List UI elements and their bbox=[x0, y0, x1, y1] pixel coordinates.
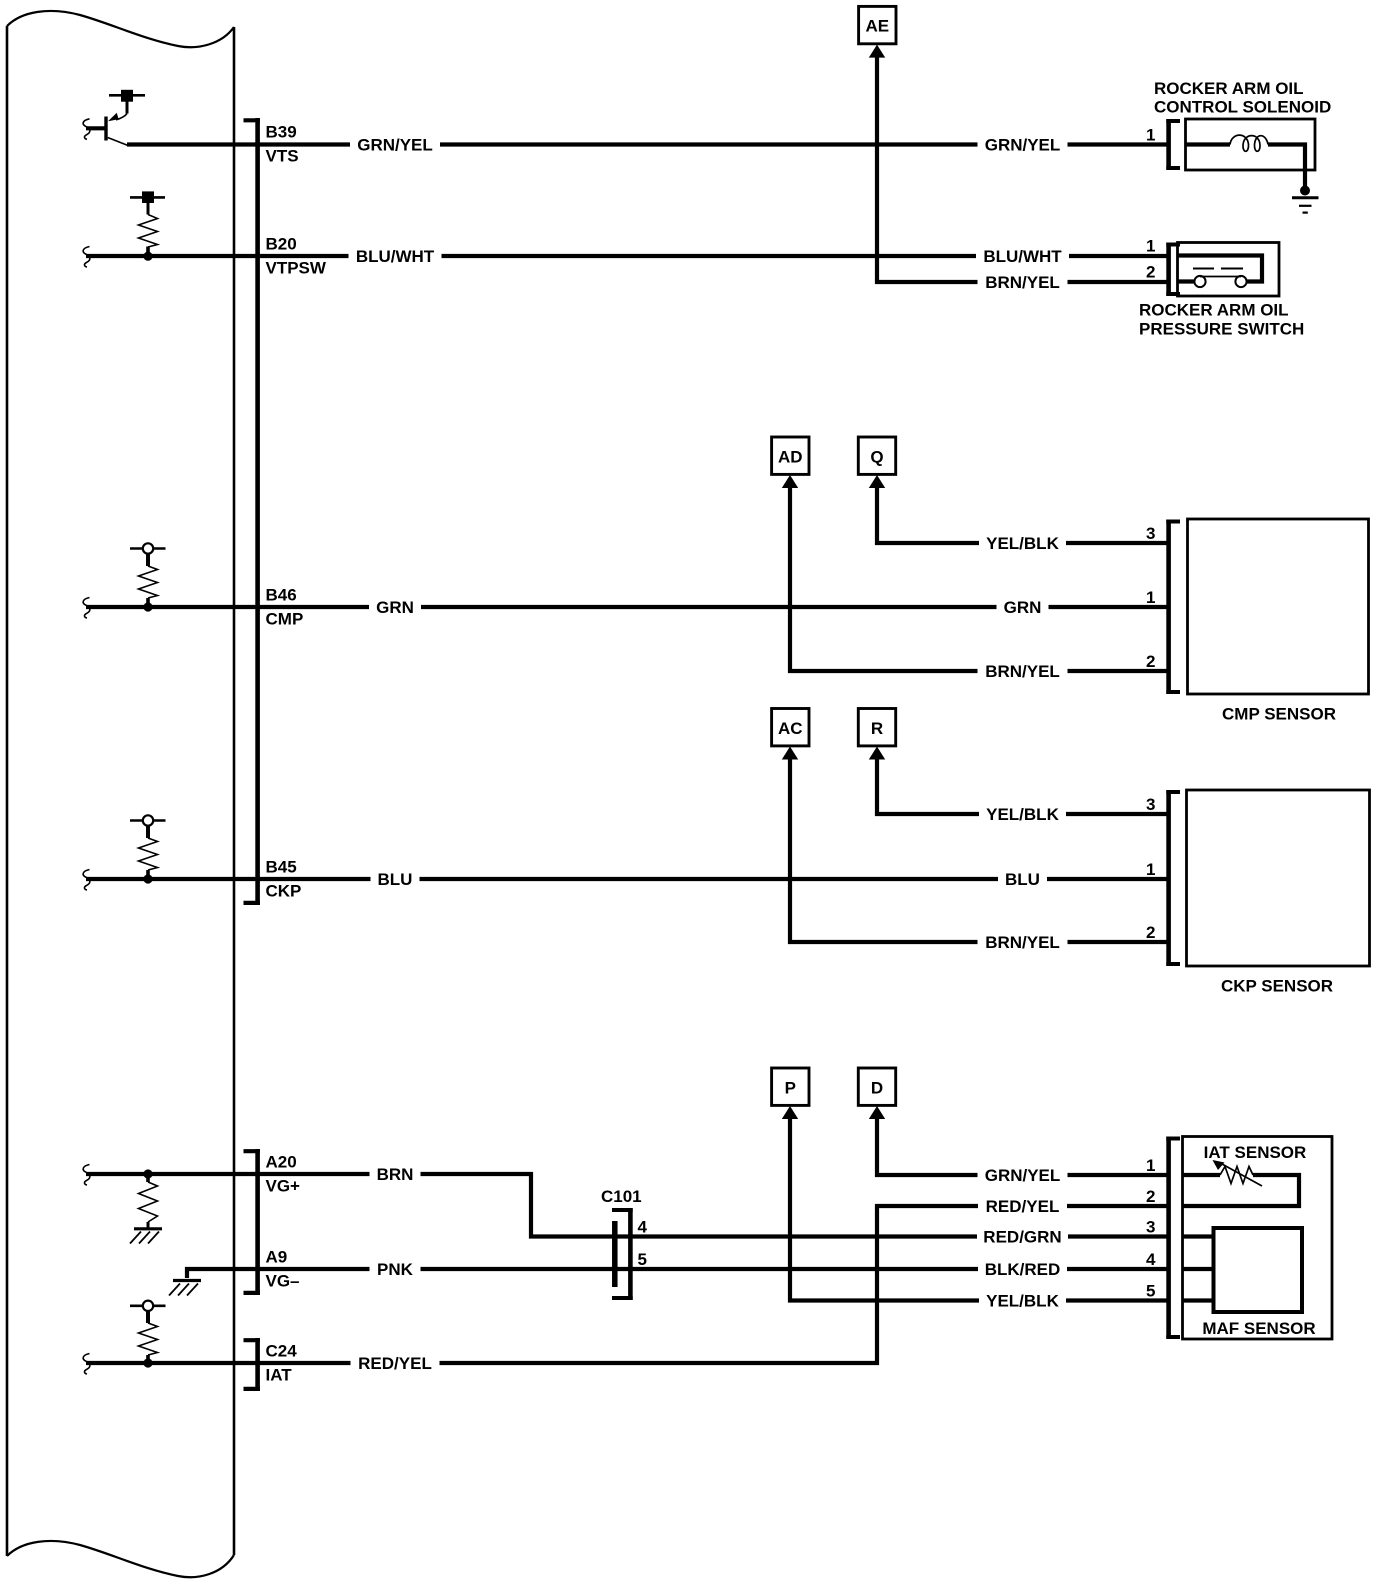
label pin B20 VTPSW bbox=[266, 235, 327, 278]
svg-text:VG+: VG+ bbox=[266, 1177, 301, 1196]
junction dot B20 bbox=[143, 252, 152, 261]
wire RED/YEL (C24 IAT up to MAF pin 2) bbox=[86, 1206, 1168, 1363]
wire BRN (A20 VG+ to C101 pin 4, then RED/GRN to MAF pin 3) bbox=[86, 1174, 1168, 1237]
svg-text:PNK: PNK bbox=[377, 1260, 414, 1279]
svg-text:Q: Q bbox=[870, 447, 883, 466]
svg-text:GRN/YEL: GRN/YEL bbox=[985, 136, 1061, 155]
junction dot B45 bbox=[143, 874, 152, 883]
label pin numbers (CMP pins 3,1,2) bbox=[1146, 524, 1155, 671]
connector D with arrow and GRN/YEL wire to IAT pin 1 bbox=[858, 1068, 1168, 1175]
resistor R4 (A20 pull-down inside ECM) bbox=[139, 1174, 158, 1228]
svg-text:3: 3 bbox=[1146, 1217, 1155, 1236]
connector C101 inline bbox=[601, 1187, 648, 1300]
svg-text:RED/YEL: RED/YEL bbox=[358, 1354, 432, 1373]
svg-text:CMP: CMP bbox=[266, 610, 304, 629]
svg-text:BLK/RED: BLK/RED bbox=[985, 1260, 1061, 1279]
svg-text:YEL/BLK: YEL/BLK bbox=[986, 805, 1059, 824]
svg-text:GRN/YEL: GRN/YEL bbox=[985, 1166, 1061, 1185]
connector bracket (CMP sensor) bbox=[1166, 520, 1180, 695]
label pin numbers (switch pins 1,2) bbox=[1146, 236, 1155, 281]
svg-text:IAT: IAT bbox=[266, 1366, 293, 1385]
connector bracket B (pins B39-B45) bbox=[244, 118, 260, 905]
svg-text:BRN: BRN bbox=[377, 1165, 414, 1184]
connector P with arrow and YEL/BLK wire to MAF pin 5 bbox=[772, 1068, 1168, 1301]
svg-text:B39: B39 bbox=[266, 123, 297, 142]
wire GRN (B46 CMP to sensor pin 1) bbox=[86, 605, 1168, 609]
junction dot A20 bbox=[143, 1169, 152, 1178]
svg-text:4: 4 bbox=[1146, 1250, 1156, 1269]
svg-text:1: 1 bbox=[1146, 236, 1155, 255]
svg-text:AC: AC bbox=[778, 719, 803, 738]
label gaps (white) under wire color names bbox=[349, 136, 1070, 1372]
svg-text:D: D bbox=[871, 1078, 883, 1097]
svg-text:RED/YEL: RED/YEL bbox=[986, 1197, 1060, 1216]
label pressure switch title bbox=[1139, 301, 1304, 339]
connector bracket (MAF/IAT sensor) bbox=[1166, 1137, 1180, 1340]
svg-text:2: 2 bbox=[1146, 1187, 1155, 1206]
connector bracket C (pin C24) bbox=[244, 1338, 260, 1391]
CKP sensor box bbox=[1187, 790, 1370, 966]
wire break squiggle (C24) bbox=[83, 1354, 90, 1375]
ECM/PCM module outline (torn-edge body) bbox=[7, 11, 234, 1577]
svg-text:BRN/YEL: BRN/YEL bbox=[985, 273, 1060, 292]
svg-text:VG–: VG– bbox=[266, 1272, 300, 1291]
label pin B46 CMP bbox=[266, 586, 304, 629]
svg-text:4: 4 bbox=[638, 1218, 648, 1237]
CMP sensor box bbox=[1188, 519, 1369, 694]
junction dot B46 bbox=[143, 602, 152, 611]
connector Q with arrow and YEL/BLK wire to CMP pin 3 bbox=[858, 437, 1168, 543]
svg-text:IAT SENSOR: IAT SENSOR bbox=[1204, 1143, 1307, 1162]
transistor Q1 (VTS driver inside ECM) bbox=[86, 90, 145, 146]
svg-text:B20: B20 bbox=[266, 235, 297, 254]
connector bracket A (pins A20,A9) bbox=[244, 1149, 260, 1295]
svg-text:3: 3 bbox=[1146, 795, 1155, 814]
svg-text:BRN/YEL: BRN/YEL bbox=[985, 662, 1060, 681]
svg-text:1: 1 bbox=[1146, 860, 1155, 879]
wire GRN/YEL (B39 VTS to solenoid) bbox=[127, 142, 1168, 146]
ground (A9 VG- ground) bbox=[169, 1281, 201, 1296]
svg-text:1: 1 bbox=[1146, 1156, 1155, 1175]
svg-text:VTPSW: VTPSW bbox=[266, 259, 327, 278]
svg-text:BLU/WHT: BLU/WHT bbox=[983, 247, 1062, 266]
svg-text:PRESSURE SWITCH: PRESSURE SWITCH bbox=[1139, 320, 1304, 339]
svg-text:2: 2 bbox=[1146, 262, 1155, 281]
MAF sensor assembly box bbox=[1183, 1137, 1333, 1340]
wire MAF pin 5 stub bbox=[1183, 1298, 1214, 1302]
svg-text:B45: B45 bbox=[266, 858, 297, 877]
resistor R1 (pull-up at B20 inside ECM) bbox=[130, 191, 165, 254]
svg-text:5: 5 bbox=[1146, 1281, 1155, 1300]
wire MAF pin 4 stub bbox=[1183, 1267, 1214, 1271]
label pin A20 VG+ bbox=[266, 1153, 301, 1196]
wire break squiggle (B20) bbox=[83, 247, 90, 268]
label solenoid title bbox=[1154, 79, 1331, 117]
svg-text:BLU/WHT: BLU/WHT bbox=[356, 247, 435, 266]
label pin numbers (MAF pins 1-5) bbox=[1146, 1156, 1156, 1301]
svg-text:1: 1 bbox=[1146, 588, 1155, 607]
svg-text:2: 2 bbox=[1146, 652, 1155, 671]
wire break squiggle (A20) bbox=[83, 1165, 90, 1186]
svg-text:GRN: GRN bbox=[1004, 598, 1042, 617]
ground (A20 resistor ground) bbox=[130, 1229, 162, 1244]
label pin A9 VG- bbox=[266, 1248, 300, 1291]
label wire colors (right run) bbox=[983, 136, 1062, 1311]
wire BLU/WHT (B20 VTPSW to pressure switch pin 1) bbox=[86, 254, 1168, 258]
svg-text:R: R bbox=[871, 719, 883, 738]
svg-text:3: 3 bbox=[1146, 524, 1155, 543]
wire PNK (A9 VG- through C101 pin 5, then BLK/RED to MAF pin 4) bbox=[234, 1267, 1168, 1271]
junction dot C24 bbox=[143, 1358, 152, 1367]
wire A9 internal ground stub bbox=[187, 1269, 234, 1278]
svg-text:5: 5 bbox=[638, 1250, 647, 1269]
connector R with arrow and YEL/BLK wire to CKP pin 3 bbox=[858, 709, 1168, 815]
thermistor RT1 (IAT sensor element) bbox=[1183, 1160, 1300, 1206]
svg-text:CKP: CKP bbox=[266, 882, 302, 901]
svg-text:VTS: VTS bbox=[266, 147, 299, 166]
svg-text:BLU: BLU bbox=[378, 870, 413, 889]
svg-text:2: 2 bbox=[1146, 923, 1155, 942]
connector bracket (rocker arm oil pressure switch) bbox=[1166, 243, 1180, 297]
label pin B39 VTS bbox=[266, 123, 299, 166]
svg-text:B46: B46 bbox=[266, 586, 297, 605]
ground (solenoid case ground) bbox=[1292, 186, 1319, 213]
svg-text:RED/GRN: RED/GRN bbox=[983, 1228, 1061, 1247]
svg-text:C101: C101 bbox=[601, 1187, 642, 1206]
connector bracket (rocker arm oil control solenoid) bbox=[1166, 119, 1180, 170]
solenoid L1 (rocker arm oil control solenoid) bbox=[1186, 119, 1316, 189]
svg-text:A9: A9 bbox=[266, 1248, 288, 1267]
svg-text:MAF SENSOR: MAF SENSOR bbox=[1202, 1319, 1315, 1338]
wire break squiggle (B46) bbox=[83, 598, 90, 619]
svg-text:A20: A20 bbox=[266, 1153, 297, 1172]
svg-text:1: 1 bbox=[1146, 125, 1155, 144]
svg-text:ROCKER ARM OIL: ROCKER ARM OIL bbox=[1139, 301, 1289, 320]
label wire colors (left run) bbox=[356, 136, 435, 1374]
connector AC with arrow and BRN/YEL wire to CKP pin 2 bbox=[772, 709, 1168, 943]
svg-text:BLU: BLU bbox=[1005, 870, 1040, 889]
connector AE with arrow and BRN/YEL wire to switch pin 2 bbox=[859, 6, 1168, 282]
wire break squiggle (transistor base lead) bbox=[83, 119, 90, 140]
label pin C24 IAT bbox=[266, 1342, 298, 1385]
MAF sensor inner box bbox=[1214, 1228, 1303, 1312]
svg-text:AD: AD bbox=[778, 447, 803, 466]
svg-text:C24: C24 bbox=[266, 1342, 298, 1361]
resistor R2 with reference node (B46 CMP input) bbox=[130, 543, 166, 607]
wire break squiggle (B45) bbox=[83, 870, 90, 891]
svg-text:GRN: GRN bbox=[376, 598, 414, 617]
resistor R3 with reference node (B45 CKP input) bbox=[130, 815, 166, 879]
svg-text:YEL/BLK: YEL/BLK bbox=[986, 534, 1059, 553]
svg-text:BRN/YEL: BRN/YEL bbox=[985, 933, 1060, 952]
svg-text:AE: AE bbox=[865, 17, 889, 36]
connector AD with arrow and BRN/YEL wire to CMP pin 2 bbox=[772, 437, 1168, 671]
svg-text:ROCKER ARM OIL: ROCKER ARM OIL bbox=[1154, 79, 1304, 98]
svg-text:CONTROL SOLENOID: CONTROL SOLENOID bbox=[1154, 98, 1331, 117]
pressure switch S1 (rocker arm oil pressure switch) bbox=[1178, 243, 1280, 297]
connector bracket (CKP sensor) bbox=[1166, 790, 1180, 966]
resistor R5 with reference node (C24 IAT pull-up) bbox=[130, 1301, 166, 1363]
svg-text:YEL/BLK: YEL/BLK bbox=[986, 1292, 1059, 1311]
svg-text:GRN/YEL: GRN/YEL bbox=[357, 136, 433, 155]
svg-text:P: P bbox=[785, 1078, 796, 1097]
svg-text:CKP SENSOR: CKP SENSOR bbox=[1221, 977, 1333, 996]
label pin B45 CKP bbox=[266, 858, 302, 901]
wire BLU (B45 CKP to sensor pin 1) bbox=[86, 877, 1168, 881]
label pin numbers (CKP pins 3,1,2) bbox=[1146, 795, 1155, 942]
wire MAF pin 3 stub bbox=[1183, 1234, 1214, 1238]
svg-text:CMP SENSOR: CMP SENSOR bbox=[1222, 705, 1336, 724]
